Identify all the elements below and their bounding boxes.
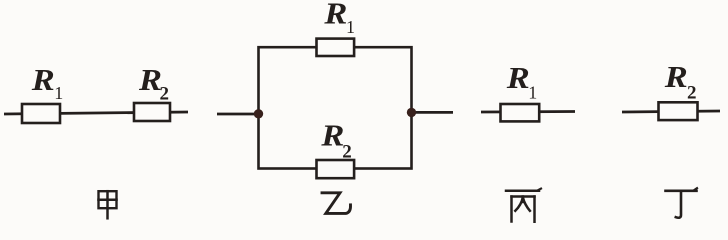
label R1 bbox=[506, 60, 538, 102]
svg-text:1: 1 bbox=[54, 83, 63, 103]
svg-text:1: 1 bbox=[528, 83, 537, 103]
svg-text:1: 1 bbox=[346, 17, 355, 37]
wire parallel loop bbox=[259, 47, 412, 168]
label R2 bbox=[138, 62, 169, 105]
node right junction bbox=[407, 108, 416, 117]
label yi bbox=[322, 193, 351, 214]
label R2 bbox=[320, 118, 352, 163]
label R1 bbox=[31, 62, 64, 103]
label R2 bbox=[664, 59, 697, 103]
wire bbox=[217, 113, 258, 116]
label ding bbox=[666, 188, 698, 218]
wire bbox=[481, 110, 575, 113]
svg-text:R: R bbox=[31, 62, 55, 97]
node left junction bbox=[254, 109, 263, 118]
wire bbox=[4, 112, 188, 114]
label bing bbox=[506, 189, 541, 223]
label R1 bbox=[323, 0, 355, 37]
svg-text:2: 2 bbox=[160, 84, 170, 105]
svg-text:R: R bbox=[138, 62, 162, 97]
svg-text:R: R bbox=[323, 0, 347, 31]
resistor R2 bbox=[317, 160, 355, 178]
svg-text:2: 2 bbox=[342, 141, 352, 162]
svg-text:2: 2 bbox=[687, 82, 697, 103]
resistor R1 bbox=[501, 104, 540, 121]
resistor R2 bbox=[134, 103, 170, 121]
svg-text:R: R bbox=[506, 60, 530, 95]
wire bbox=[412, 111, 453, 114]
label jia bbox=[99, 191, 117, 218]
wire bbox=[622, 111, 720, 112]
resistor R1 bbox=[22, 104, 60, 123]
resistor R1 bbox=[317, 39, 355, 56]
svg-text:R: R bbox=[320, 118, 344, 153]
resistor R2 bbox=[659, 102, 698, 120]
svg-text:R: R bbox=[664, 59, 688, 94]
